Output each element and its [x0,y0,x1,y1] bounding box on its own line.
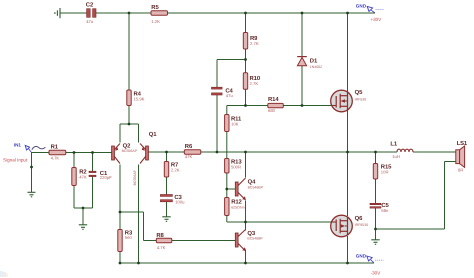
input flag IN1 [14,143,46,153]
svg-text:47u: 47u [86,19,94,24]
svg-text:560: 560 [125,235,133,240]
resistor R8 [156,232,172,250]
svg-text:Q4: Q4 [248,178,256,185]
wire Q3 collector [245,222,247,231]
wire R7 to C3 [166,177,168,195]
svg-text:Signal Input: Signal Input [3,157,28,162]
resistor R6 [184,143,201,159]
wire bottom -30V rail [120,262,374,264]
svg-text:R6: R6 [185,143,193,150]
svg-text:IRF530: IRF530 [355,97,367,101]
svg-text:BC546BP: BC546BP [247,236,263,240]
ground below C3 [162,217,170,222]
node top rail Q5 drain [346,12,349,15]
node gate R10 R14 [244,104,247,107]
svg-text:10R: 10R [381,170,389,175]
wire Q5 drain [347,13,349,92]
svg-text:R14: R14 [268,96,279,103]
wire Q2 collector to R3 to bottom rail [119,165,121,264]
capacitor C4 [212,87,234,98]
svg-text:GND: GND [356,4,367,9]
wire Q6 source [347,236,349,263]
speaker LS1 [456,140,468,172]
wire ground return row [376,228,445,230]
svg-text:GND: GND [356,254,367,259]
node D1 gate row [301,104,304,107]
svg-text:15.9K: 15.9K [134,97,145,102]
supply flag +30V [356,4,384,23]
wire top rail C2 to +30V flag [96,12,375,14]
svg-text:500R: 500R [231,165,241,170]
svg-text:47K: 47K [79,175,87,180]
node Q2 collector tap [119,211,122,214]
wire Q4 emitter [245,201,247,223]
svg-text:R5: R5 [151,4,159,11]
node output Q5 Q6 [346,151,349,154]
node Q6 gate R12 Q3 [244,221,247,224]
svg-text:R8: R8 [156,232,164,239]
wire C1 bottom [92,177,94,209]
svg-text:IN1: IN1 [14,143,22,148]
node C4 bottom [216,151,219,154]
resistor R10 [243,73,261,90]
node R3 bottom rail [119,262,122,265]
wire R7 top [166,152,168,162]
svg-text:C2: C2 [86,1,94,8]
svg-text:-30V: -30V [371,270,382,275]
svg-text:1uH: 1uH [392,154,400,159]
node C1 top [91,151,94,154]
svg-text:1.2K: 1.2K [151,19,160,24]
node top rail D1 [301,12,304,15]
node input ground [30,166,33,169]
wire C4 column top [216,60,218,88]
node C4 R9 R10 [244,58,247,61]
mosfet Q5 [331,89,366,112]
wire signal input to R1 [32,152,50,154]
wire tap to R8 horizontal [120,211,144,213]
wire R12 bottom corner [227,221,246,223]
wire R2 top [73,153,75,168]
resistor R14 [268,96,284,113]
diode D1 [297,57,322,69]
transistor Q2 [112,142,138,163]
ground below R2 C1 [79,225,87,230]
capacitor C5 [370,202,390,213]
wire Q1 collector to bottom rail [138,165,140,264]
wire R15 column [375,152,377,203]
resistor R7 [164,161,179,177]
svg-text:4.7K: 4.7K [157,245,166,250]
node Q6 source rail [346,262,349,265]
wire R9 R10 column [245,13,247,106]
svg-text:680: 680 [268,108,276,113]
wire Q1 base / feedback / output rail [149,151,398,153]
ground below C5 [371,240,379,245]
corner artifact [0,271,8,277]
mosfet Q6 [331,215,368,237]
resistor R4 [127,90,145,106]
svg-text:L1: L1 [390,140,397,147]
svg-text:BC546BP: BC546BP [248,185,264,189]
wire Q5 gate row [227,105,331,107]
resistor R9 [243,33,259,50]
svg-text:8R: 8R [458,168,463,173]
wire tap to R8 vertical [143,212,145,241]
ground top-left [55,8,60,18]
wire Q4 base [227,188,236,190]
label Signal Input [3,157,28,162]
svg-text:Q1: Q1 [149,131,157,138]
wire R11 hook [226,106,228,115]
svg-text:2.7K: 2.7K [250,41,259,46]
inductor L1 [390,140,413,159]
resistor R13 [225,158,243,173]
wire Q1 emitter drop [138,124,140,143]
resistor R3 [118,229,133,251]
svg-text:47u: 47u [226,93,234,98]
wire C4 column bottom [216,95,218,152]
wire Q6 drain [347,152,349,216]
wire D1 column top [301,13,303,57]
node R4 emitter split [128,123,131,126]
wire R8 row to Q3 base [144,240,236,242]
svg-text:47K: 47K [185,154,193,159]
wire R4 column [128,13,130,124]
wire C3 to ground [166,202,168,217]
svg-text:+30V: +30V [370,17,382,22]
wire ground stem below R2 C1 [82,208,84,225]
wire input ground drop [31,153,33,193]
transistor Q3 [235,230,263,252]
svg-text:R1: R1 [51,144,59,151]
node C5 ground LS1 [374,228,377,231]
svg-text:2.2K: 2.2K [171,168,180,173]
svg-text:10K: 10K [231,122,239,127]
wire C1 top [92,153,94,172]
svg-text:1N4002: 1N4002 [310,65,322,69]
transistor Q1 [133,131,157,185]
resistor R5 [151,4,168,24]
node Q4 base divider [225,188,228,191]
wire R11 R13 R12 column [226,115,228,223]
node R2 C1 ground [82,207,85,210]
wire D1 column bottom [301,66,303,106]
capacitor C1 [89,170,112,180]
svg-text:Q5: Q5 [355,89,363,96]
resistor R12 [225,198,245,216]
svg-text:220pF: 220pF [100,175,112,180]
node top rail R9 [244,12,247,15]
wire R2 C1 bottom tie [74,207,93,209]
capacitor C3 [160,194,185,205]
resistor R11 [225,115,242,132]
wire Q5 source [347,110,349,152]
wire Q2 emitter drop [119,124,121,143]
wire emitter split horizontal [120,123,139,125]
svg-text:D1: D1 [310,58,318,65]
svg-text:2.7K: 2.7K [250,81,259,86]
wire R2 bottom [73,186,75,209]
svg-text:Q6: Q6 [355,215,363,222]
resistor R2 [72,168,88,186]
capacitor C2 [86,1,96,23]
node R15 top [374,151,377,154]
svg-text:100u: 100u [175,200,185,205]
node R1 R2 [73,151,76,154]
node Q1 collector rail [137,262,140,265]
svg-text:68n: 68n [381,208,389,213]
wire Q6 gate row [246,221,332,223]
svg-text:BC556AP: BC556AP [122,149,138,153]
wire C4 top horizontal [217,59,246,61]
supply flag -30V [356,254,384,276]
node top rail R4 [128,12,131,15]
wire Q4 collector [245,152,247,178]
svg-text:625Ohm: 625Ohm [231,205,245,209]
wire R1 to Q2 base [66,152,112,154]
node Q1 base R7 [165,151,168,154]
svg-text:BC556AP: BC556AP [133,169,137,185]
wire C5 to ground node [375,208,377,240]
wire top rail left of C2 [60,12,87,14]
transistor Q4 [235,178,263,200]
wire output rail L1 to LS1 [413,151,456,153]
svg-text:4.7K: 4.7K [51,155,60,160]
resistor R15 [373,163,392,179]
wire Q3 emitter [245,250,247,264]
svg-text:LS1: LS1 [457,140,468,147]
ground signal input [28,192,36,197]
resistor R1 [49,144,66,161]
node Q3 emitter rail [244,262,247,265]
wire LS1 return riser [444,162,446,230]
wire LS1 bottom terminal [445,161,457,163]
node Q4 collector rail [244,151,247,154]
svg-text:IRF9530: IRF9530 [355,223,368,227]
